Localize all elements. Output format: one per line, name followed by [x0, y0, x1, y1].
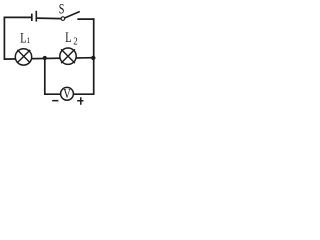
switch terminal circle [61, 17, 65, 21]
svg-text:L: L [20, 29, 26, 45]
wire right vertical [93, 18, 95, 95]
lamp L1 circle [15, 49, 31, 65]
plus sign [77, 97, 83, 104]
wire switch to top-right corner [77, 18, 94, 20]
wire battery to switch [36, 17, 61, 20]
wire middle horizontal (behind lamps) [4, 58, 94, 59]
wire bottom horizontal (behind voltmeter) [44, 93, 94, 95]
lamp L2 circle [60, 48, 76, 64]
lamp L1 cross [17, 50, 30, 63]
battery short plate [31, 14, 33, 21]
lamp L2 cross [61, 49, 75, 63]
battery long plate [35, 11, 37, 22]
junction dot left [43, 56, 47, 60]
svg-text:S: S [59, 1, 65, 17]
wire top-left horizontal [4, 16, 32, 18]
switch lever [65, 12, 80, 19]
svg-text:2: 2 [73, 36, 77, 48]
svg-text:L: L [65, 29, 71, 45]
svg-text:V: V [63, 86, 71, 102]
svg-text:1: 1 [27, 36, 31, 46]
wire branch vertical left-lower [44, 58, 46, 95]
junction dot right [91, 56, 95, 60]
voltmeter circle [61, 87, 74, 100]
minus sign [52, 100, 58, 102]
wire left vertical [3, 17, 5, 60]
